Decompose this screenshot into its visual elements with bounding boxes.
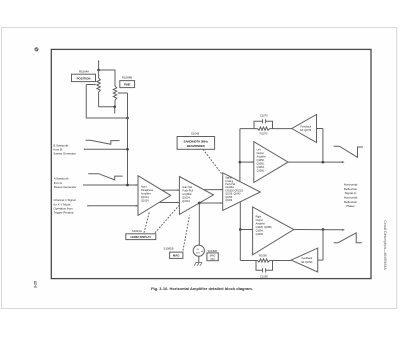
wire supply stub (98, 61, 100, 71)
wire wiper1 bottom run (86, 117, 127, 119)
registered trademark dot (34, 47, 38, 51)
svg-text:EF Q1070: EF Q1070 (300, 129, 312, 132)
front panel box BANDWIDTH BEAMFINDER (177, 137, 215, 150)
svg-text:Limiting: Limiting (225, 180, 234, 183)
amplifier U6 feedback EF Q1070 (292, 115, 317, 143)
svg-text:BEAMFINDER: BEAMFINDER (187, 144, 205, 148)
amplifier U1 input paraphase (138, 176, 171, 216)
svg-text:R1090: R1090 (259, 254, 267, 258)
diagram border frame (51, 49, 371, 278)
waveform left deflection (334, 146, 363, 157)
wire lower branch vertical (239, 202, 241, 261)
arrowhead U4 in (252, 161, 254, 163)
wire feedback right run (270, 128, 292, 130)
wire R1064B bottom lead (114, 100, 116, 107)
svg-text:Feedback: Feedback (301, 125, 312, 128)
svg-text:BANDWIDTH 5MHz: BANDWIDTH 5MHz (184, 139, 209, 143)
svg-text:Sweep Generator: Sweep Generator (53, 152, 76, 156)
svg-text:R1070: R1070 (260, 131, 268, 135)
svg-text:Q1066: Q1066 (257, 170, 265, 173)
wire U3 lower to mag switch (198, 203, 200, 245)
wire R1064B wiper lead (119, 92, 127, 94)
svg-text:Plates: Plates (346, 204, 355, 208)
amplifier U5 right output (253, 207, 294, 255)
junction feedback tap right (322, 228, 325, 231)
dashed link S1021A to U2 (155, 206, 179, 233)
wire channel 1 input (88, 205, 139, 207)
wire pot bottoms join (99, 106, 115, 108)
wire R1064A wiper lead (86, 84, 94, 86)
junction U4 input tap (239, 161, 242, 164)
arrowhead U3 upper in (221, 189, 223, 191)
front panel box FINE (120, 81, 135, 88)
junction pot bottoms (113, 105, 116, 108)
amplifier U2 gain set push-pull (179, 177, 213, 215)
arrowhead U3 lower in (221, 202, 223, 204)
potentiometer R1064B FINE (113, 86, 116, 100)
ground (194, 263, 202, 266)
svg-text:Signal: Signal (225, 178, 232, 180)
wire A sawtooth input (84, 184, 139, 186)
wire feedback down left (322, 129, 324, 163)
svg-text:CR1020-CR1023: CR1020-CR1023 (225, 190, 243, 192)
arrowhead A input (83, 184, 85, 186)
wire switch to ground (198, 256, 200, 262)
arrowhead U2 upper in (177, 189, 179, 191)
waveform right deflection (334, 233, 362, 243)
wire feedback2 right run (270, 260, 292, 262)
box MAG X10 (207, 253, 218, 261)
svg-text:Q1060: Q1060 (225, 200, 233, 202)
capacitor C1090 (256, 261, 273, 273)
wire U1 to U2 upper (162, 189, 180, 191)
svg-text:Q1096: Q1096 (256, 233, 264, 236)
dashed link S1021A to U1 (144, 212, 150, 233)
svg-text:R1064B: R1064B (122, 76, 132, 80)
svg-text:POSITION: POSITION (77, 76, 91, 80)
svg-text:X10: X10 (210, 258, 215, 261)
svg-text:Circuit Description—464/R464A: Circuit Description—464/R464A (383, 220, 387, 270)
wire upper branch vertical (239, 129, 241, 182)
wire feedback2 left run (240, 260, 257, 262)
potentiometer R1064A POSITION (97, 78, 100, 92)
dashed link S1045 to U3 (203, 149, 222, 173)
junction wiper bus (126, 117, 129, 120)
svg-text:C1090: C1090 (260, 274, 268, 278)
arrowhead U5 in (251, 229, 253, 231)
svg-text:C1070: C1070 (260, 114, 268, 118)
front panel box POSITION (72, 74, 96, 81)
svg-text:Sweep Generator: Sweep Generator (54, 185, 77, 189)
svg-text:R1064A: R1064A (79, 70, 89, 74)
svg-text:10X: 10X (196, 253, 200, 255)
svg-text:S1021A: S1021A (132, 229, 142, 233)
wire U1 to U2 lower (159, 202, 179, 204)
svg-text:HORIZ DISPLAY: HORIZ DISPLAY (131, 235, 152, 239)
svg-text:S1030B: S1030B (208, 249, 218, 253)
amplifier U7 feedback EF Q1090 (291, 248, 318, 272)
arrowhead R1064A wiper (94, 84, 96, 86)
svg-text:EF Q1090: EF Q1090 (301, 261, 313, 264)
arrowhead A into U1 (136, 184, 138, 186)
wire U2 to U3 lower (199, 202, 222, 204)
arrowhead ch1 input (87, 205, 89, 207)
arrowhead R1064B wiper (117, 92, 119, 94)
amplifier U4 left output (254, 142, 288, 183)
junction U5 input tap (239, 228, 242, 231)
svg-text:Fig. 3-16. Horizontal Amplifie: Fig. 3-16. Horizontal Amplifier detailed… (151, 286, 253, 291)
svg-text:Q1050,: Q1050, (225, 197, 233, 199)
svg-text:Q1044: Q1044 (182, 200, 190, 203)
wire U7 input lead (318, 259, 323, 261)
wire R1064A bottom lead (98, 92, 100, 107)
svg-text:Feedback: Feedback (302, 257, 313, 260)
arrowhead switch wiper (201, 251, 203, 253)
wire U4 output (288, 161, 343, 163)
svg-text:Amplifier: Amplifier (225, 186, 234, 189)
resistor R1090 (258, 259, 270, 262)
waveform B sawtooth (86, 140, 120, 144)
wire position bus vertical (127, 93, 129, 185)
junction A to bus (126, 184, 129, 187)
svg-text:FINE: FINE (124, 83, 131, 87)
capacitor C1070 (254, 119, 273, 128)
amplifier U3 signal limiting push-pull (223, 173, 261, 211)
svg-text:Trigger Preamp: Trigger Preamp (54, 211, 74, 215)
front panel box HORIZ DISPLAY (126, 234, 156, 240)
wire feedback up right (322, 230, 324, 261)
resistor R1070 (258, 127, 270, 130)
arrowhead left deflection out (342, 161, 345, 163)
arrowhead supply up (98, 60, 100, 62)
junction B to bus (126, 148, 129, 151)
wire feedback left run (240, 128, 258, 130)
svg-text:S1045: S1045 (191, 132, 200, 136)
wire B sawtooth input (84, 148, 128, 150)
svg-text:Q1024: Q1024 (141, 200, 149, 203)
arrowhead ch1 into U1 (136, 205, 138, 207)
arrowhead B input (84, 148, 86, 150)
wire to R1064B top (99, 70, 115, 86)
wire stub down (114, 107, 116, 114)
rotary switch S1030B mag (193, 245, 204, 256)
junction feedback tap left (322, 161, 325, 164)
svg-text:Push-Pull: Push-Pull (225, 184, 235, 186)
arrowhead right deflection out (342, 229, 345, 231)
front panel box MAG (170, 252, 183, 258)
wire U5 output (294, 229, 344, 231)
wire to U5 input (240, 229, 252, 231)
wire U6 input lead (317, 128, 323, 130)
svg-text:Q1030, Q1040: Q1030, Q1040 (225, 194, 241, 196)
waveform A sawtooth (88, 174, 123, 180)
dashed link MAG to U2 (183, 216, 190, 251)
wire R1064A top lead (98, 70, 100, 78)
wire wiper1 down (85, 85, 87, 119)
wire to U4 input (240, 161, 254, 163)
wire U2 to U3 upper (204, 189, 223, 191)
junction mag tap (198, 202, 201, 205)
svg-text:S1081B: S1081B (164, 246, 174, 250)
arrowhead U2 lower in (177, 202, 179, 204)
svg-text:3-25: 3-25 (34, 281, 38, 288)
svg-text:MAG: MAG (173, 254, 180, 258)
junction supply node (97, 69, 100, 72)
